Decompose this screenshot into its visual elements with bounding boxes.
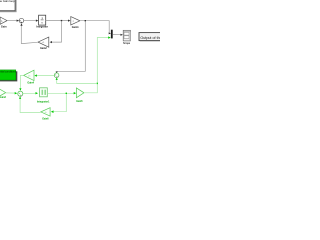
svg-text:Gain2: Gain2 bbox=[40, 47, 47, 50]
svg-text:Gain3: Gain3 bbox=[0, 97, 7, 99]
svg-text:Output of the: Output of the bbox=[140, 36, 160, 40]
svg-text:Gain5: Gain5 bbox=[76, 101, 83, 103]
svg-text:-K-: -K- bbox=[44, 112, 47, 114]
svg-text:Gain6: Gain6 bbox=[42, 118, 49, 120]
svg-text:Integrator1: Integrator1 bbox=[37, 100, 50, 103]
svg-text:Gain1: Gain1 bbox=[72, 26, 80, 29]
svg-text:1/s: 1/s bbox=[28, 75, 31, 77]
svg-text:Gain4: Gain4 bbox=[27, 81, 34, 84]
svg-text:and the Gain loop: and the Gain loop bbox=[0, 0, 15, 3]
svg-text:Gain: Gain bbox=[1, 25, 7, 29]
svg-text:Set the initial conditions: Set the initial conditions bbox=[0, 71, 17, 74]
svg-text:Scope: Scope bbox=[123, 43, 131, 45]
svg-text:Integrator: Integrator bbox=[36, 26, 48, 29]
